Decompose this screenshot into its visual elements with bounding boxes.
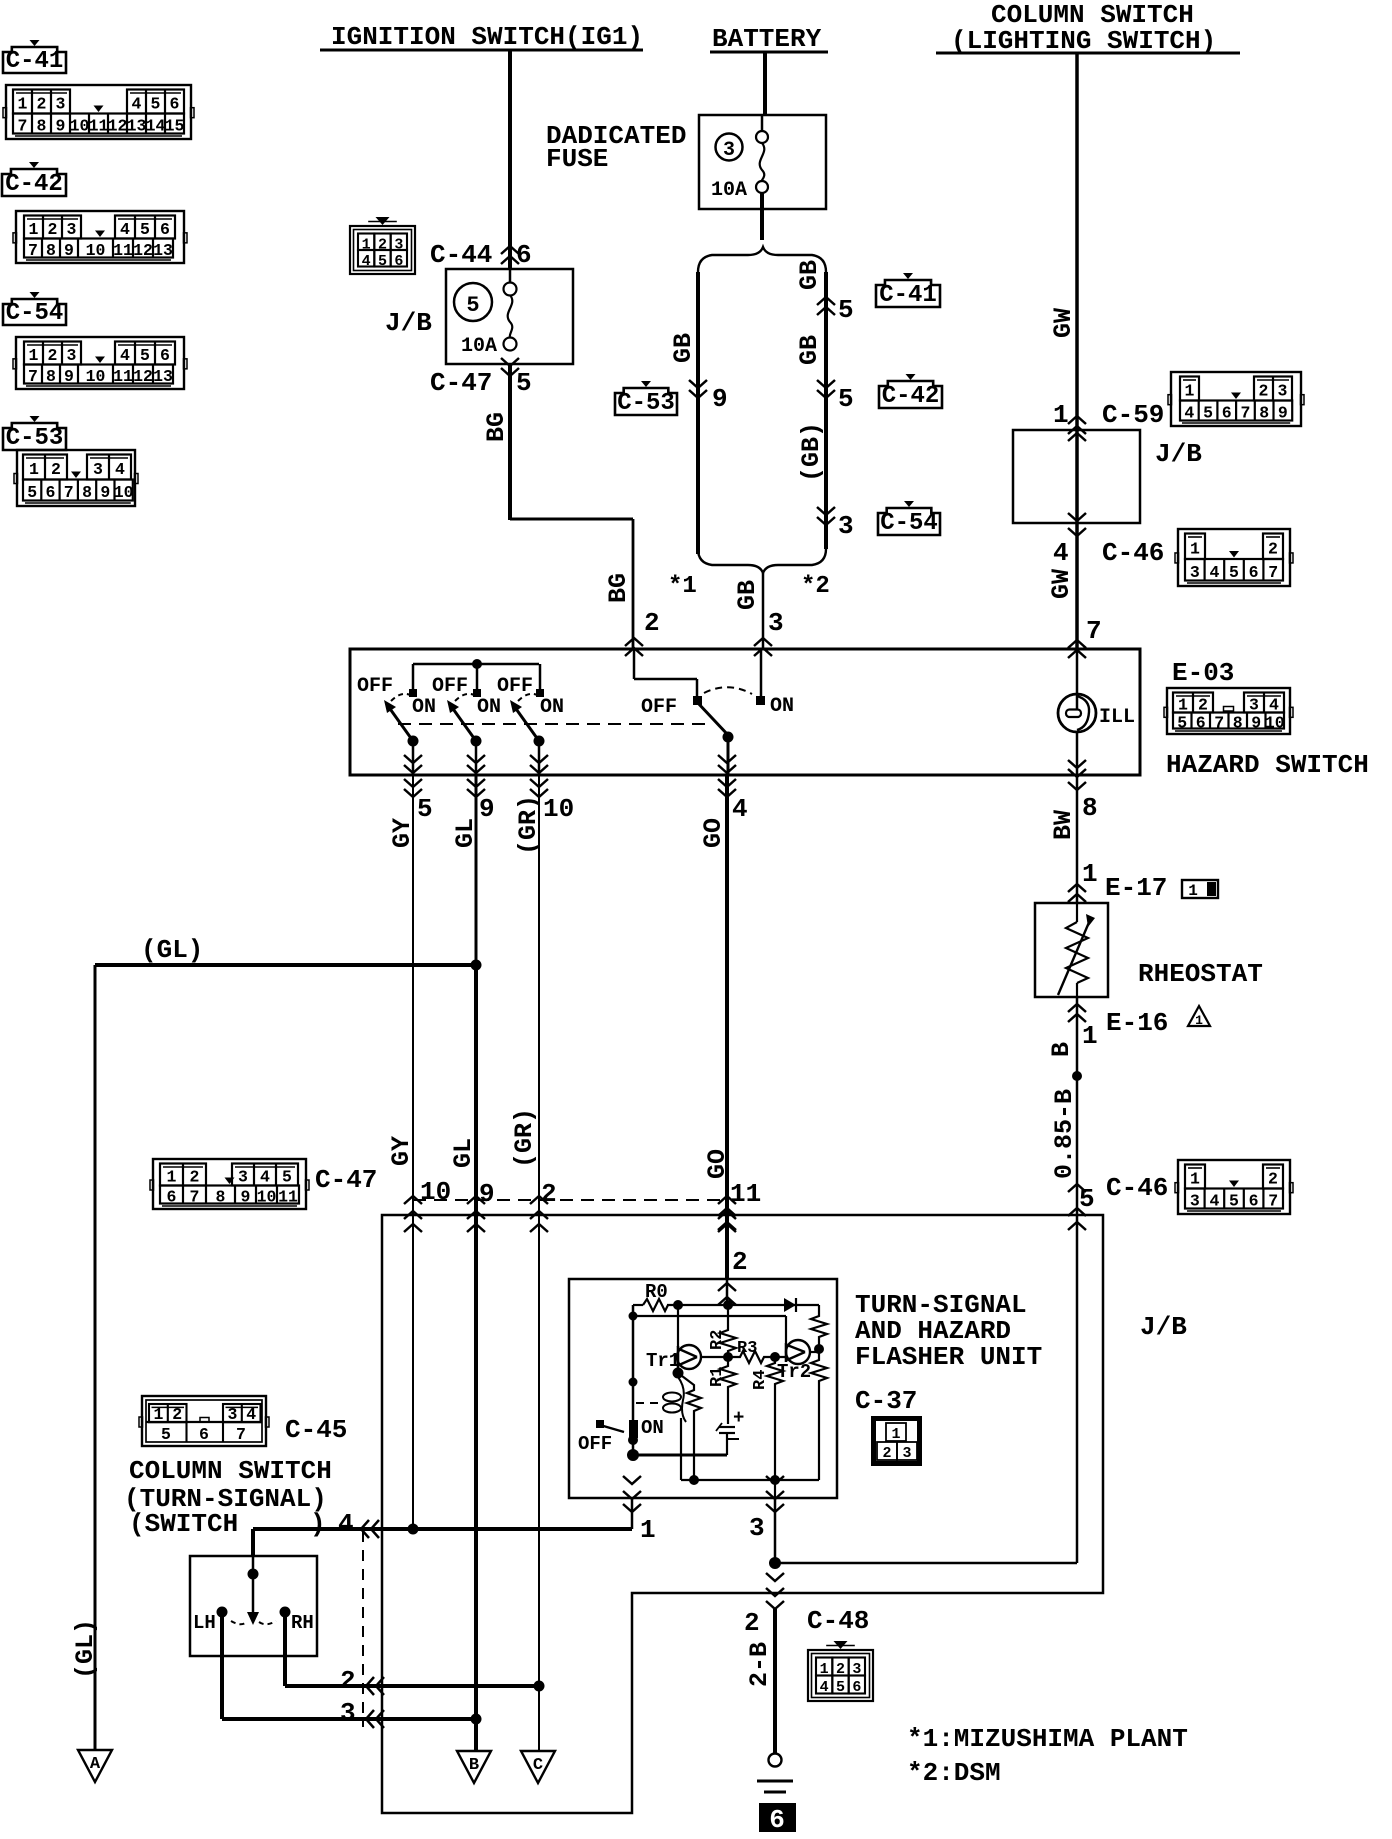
svg-text:LH: LH bbox=[193, 1612, 216, 1634]
svg-text:8: 8 bbox=[1082, 793, 1098, 823]
svg-text:3: 3 bbox=[238, 1168, 248, 1187]
svg-text:10: 10 bbox=[114, 483, 134, 502]
svg-text:Tr2: Tr2 bbox=[777, 1361, 811, 1383]
svg-text:6: 6 bbox=[170, 95, 180, 114]
svg-text:9: 9 bbox=[56, 117, 66, 136]
svg-text:4: 4 bbox=[120, 220, 130, 239]
svg-text:GW: GW bbox=[1049, 308, 1078, 338]
svg-text:HAZARD SWITCH: HAZARD SWITCH bbox=[1166, 750, 1369, 780]
svg-text:5: 5 bbox=[282, 1168, 292, 1187]
svg-text:6: 6 bbox=[516, 240, 532, 270]
svg-text:6: 6 bbox=[394, 253, 403, 270]
svg-text:8: 8 bbox=[216, 1188, 226, 1207]
svg-text:3: 3 bbox=[768, 608, 784, 638]
svg-text:1: 1 bbox=[640, 1515, 656, 1545]
svg-text:9: 9 bbox=[479, 794, 495, 824]
svg-text:3: 3 bbox=[1190, 563, 1200, 582]
svg-text:1: 1 bbox=[1190, 539, 1200, 558]
svg-text:C-54: C-54 bbox=[6, 300, 64, 327]
svg-text:7: 7 bbox=[1086, 616, 1102, 646]
svg-text:GO: GO bbox=[699, 818, 728, 848]
svg-text:9: 9 bbox=[64, 367, 74, 386]
svg-text:10A: 10A bbox=[711, 179, 747, 202]
svg-text:1: 1 bbox=[29, 220, 39, 239]
svg-text:13: 13 bbox=[153, 367, 173, 386]
svg-text:+: + bbox=[733, 1407, 744, 1429]
svg-text:5: 5 bbox=[1177, 714, 1187, 733]
svg-text:7: 7 bbox=[1240, 404, 1250, 423]
svg-text:C-47: C-47 bbox=[430, 368, 492, 398]
svg-text:GB: GB bbox=[795, 260, 824, 290]
svg-text:R4: R4 bbox=[751, 1370, 770, 1390]
svg-text:1: 1 bbox=[18, 95, 28, 114]
svg-text:5: 5 bbox=[838, 384, 854, 414]
svg-text:0.85-B: 0.85-B bbox=[1050, 1089, 1079, 1179]
svg-text:1: 1 bbox=[1053, 400, 1069, 430]
svg-text:9: 9 bbox=[241, 1188, 251, 1207]
svg-text:GL: GL bbox=[449, 1138, 478, 1168]
svg-text:B: B bbox=[469, 1756, 479, 1775]
svg-text:4: 4 bbox=[1053, 538, 1069, 568]
svg-text:ON: ON bbox=[412, 696, 436, 719]
svg-text:7: 7 bbox=[18, 117, 28, 136]
svg-text:2: 2 bbox=[1259, 382, 1269, 401]
svg-text:2: 2 bbox=[172, 1405, 182, 1424]
svg-text:ON: ON bbox=[477, 696, 501, 719]
svg-text:1: 1 bbox=[1190, 1170, 1200, 1189]
svg-text:6: 6 bbox=[1222, 404, 1232, 423]
svg-text:2: 2 bbox=[37, 95, 47, 114]
svg-text:E-16: E-16 bbox=[1106, 1008, 1168, 1038]
svg-text:C-44: C-44 bbox=[430, 240, 492, 270]
svg-text:OFF: OFF bbox=[578, 1433, 612, 1455]
svg-text:1: 1 bbox=[29, 346, 39, 365]
svg-text:12: 12 bbox=[133, 367, 153, 386]
svg-text:GO: GO bbox=[703, 1149, 732, 1179]
svg-text:2-B: 2-B bbox=[745, 1642, 774, 1687]
svg-text:4: 4 bbox=[246, 1405, 256, 1424]
svg-text:GB: GB bbox=[669, 333, 698, 363]
svg-text:ON: ON bbox=[540, 696, 564, 719]
svg-text:9: 9 bbox=[64, 241, 74, 260]
svg-text:BATTERY: BATTERY bbox=[712, 24, 822, 54]
svg-text:ILL: ILL bbox=[1099, 706, 1135, 729]
svg-text:14: 14 bbox=[146, 117, 166, 136]
svg-text:2: 2 bbox=[1268, 1170, 1278, 1189]
svg-text:4: 4 bbox=[1209, 1192, 1219, 1211]
svg-text:GY: GY bbox=[387, 1136, 416, 1166]
svg-text:GB: GB bbox=[733, 580, 762, 610]
svg-text:7: 7 bbox=[1268, 563, 1278, 582]
svg-text:4: 4 bbox=[120, 346, 130, 365]
svg-text:BG: BG bbox=[604, 573, 633, 603]
svg-text:1: 1 bbox=[1195, 1013, 1203, 1028]
svg-text:11: 11 bbox=[113, 241, 133, 260]
svg-text:(GL): (GL) bbox=[141, 935, 203, 965]
svg-text:5: 5 bbox=[378, 253, 387, 270]
svg-text:C-41: C-41 bbox=[879, 282, 937, 309]
svg-text:5: 5 bbox=[140, 346, 150, 365]
svg-text:7: 7 bbox=[28, 367, 38, 386]
svg-text:C-46: C-46 bbox=[1106, 1173, 1168, 1203]
svg-text:7: 7 bbox=[28, 241, 38, 260]
svg-text:11: 11 bbox=[113, 367, 133, 386]
svg-text:1: 1 bbox=[1082, 1021, 1098, 1051]
svg-text:6: 6 bbox=[45, 483, 55, 502]
svg-text:4: 4 bbox=[820, 1679, 829, 1696]
svg-text:8: 8 bbox=[82, 483, 92, 502]
svg-text:4: 4 bbox=[115, 460, 125, 479]
svg-text:3: 3 bbox=[67, 346, 77, 365]
svg-text:3: 3 bbox=[227, 1405, 237, 1424]
svg-text:*1: *1 bbox=[668, 573, 697, 600]
svg-text:C-53: C-53 bbox=[617, 390, 675, 417]
svg-text:E-03: E-03 bbox=[1172, 658, 1234, 688]
svg-text:11: 11 bbox=[89, 117, 109, 136]
svg-text:A: A bbox=[90, 1755, 101, 1774]
svg-text:6: 6 bbox=[199, 1425, 209, 1444]
svg-text:2: 2 bbox=[51, 460, 61, 479]
svg-text:15: 15 bbox=[165, 117, 185, 136]
svg-text:RH: RH bbox=[291, 1612, 314, 1634]
svg-text:5: 5 bbox=[27, 483, 37, 502]
svg-text:C-53: C-53 bbox=[6, 425, 64, 452]
svg-text:2: 2 bbox=[744, 1608, 760, 1638]
svg-text:C-59: C-59 bbox=[1102, 400, 1164, 430]
svg-text:7: 7 bbox=[1214, 714, 1224, 733]
svg-text:C-42: C-42 bbox=[882, 383, 940, 410]
svg-text:10: 10 bbox=[257, 1188, 277, 1207]
svg-text:2: 2 bbox=[48, 346, 58, 365]
svg-text:9: 9 bbox=[1278, 404, 1288, 423]
svg-text:7: 7 bbox=[64, 483, 74, 502]
svg-text:7: 7 bbox=[1268, 1192, 1278, 1211]
svg-text:(GL): (GL) bbox=[71, 1619, 100, 1679]
svg-text:5: 5 bbox=[466, 293, 479, 318]
svg-text:10: 10 bbox=[70, 117, 90, 136]
svg-text:FLASHER UNIT: FLASHER UNIT bbox=[855, 1342, 1042, 1372]
svg-text:ON: ON bbox=[770, 695, 794, 718]
svg-text:8: 8 bbox=[37, 117, 47, 136]
svg-text:10: 10 bbox=[1265, 714, 1285, 733]
svg-text:3: 3 bbox=[723, 139, 735, 162]
svg-text:7: 7 bbox=[236, 1425, 246, 1444]
svg-text:2: 2 bbox=[340, 1666, 356, 1696]
svg-text:8: 8 bbox=[46, 241, 56, 260]
svg-text:C-42: C-42 bbox=[5, 171, 63, 198]
svg-text:1: 1 bbox=[1185, 382, 1195, 401]
svg-text:3: 3 bbox=[902, 1445, 911, 1462]
svg-text:5: 5 bbox=[1229, 563, 1239, 582]
svg-text:9: 9 bbox=[1251, 714, 1261, 733]
svg-text:(SWITCH: (SWITCH bbox=[129, 1509, 238, 1539]
svg-text:(GR): (GR) bbox=[510, 1108, 539, 1168]
svg-text:5: 5 bbox=[417, 794, 433, 824]
svg-text:4: 4 bbox=[338, 1509, 354, 1539]
svg-text:C-47: C-47 bbox=[315, 1165, 377, 1195]
svg-text:5: 5 bbox=[140, 220, 150, 239]
svg-text:1: 1 bbox=[891, 1426, 900, 1443]
svg-text:3: 3 bbox=[1190, 1192, 1200, 1211]
svg-text:J/B: J/B bbox=[385, 308, 432, 338]
svg-text:10: 10 bbox=[86, 241, 106, 260]
svg-text:5: 5 bbox=[1229, 1192, 1239, 1211]
svg-text:C-45: C-45 bbox=[285, 1415, 347, 1445]
svg-text:C-48: C-48 bbox=[807, 1606, 869, 1636]
svg-text:COLUMN SWITCH: COLUMN SWITCH bbox=[129, 1456, 332, 1486]
svg-text:2: 2 bbox=[190, 1168, 200, 1187]
svg-text:OFF: OFF bbox=[497, 675, 533, 698]
svg-text:13: 13 bbox=[127, 117, 147, 136]
svg-text:C-41: C-41 bbox=[6, 48, 64, 75]
svg-text:BG: BG bbox=[482, 412, 511, 442]
svg-text:J/B: J/B bbox=[1155, 439, 1202, 469]
svg-text:9: 9 bbox=[712, 384, 728, 414]
svg-text:6: 6 bbox=[852, 1679, 861, 1696]
svg-text:BW: BW bbox=[1049, 810, 1078, 840]
svg-text:RHEOSTAT: RHEOSTAT bbox=[1138, 959, 1263, 989]
svg-text:4: 4 bbox=[1184, 404, 1194, 423]
svg-text:4: 4 bbox=[260, 1168, 270, 1187]
svg-text:5: 5 bbox=[1203, 404, 1213, 423]
svg-text:OFF: OFF bbox=[357, 675, 393, 698]
svg-text:*2:DSM: *2:DSM bbox=[907, 1758, 1001, 1788]
svg-text:3: 3 bbox=[838, 511, 854, 541]
svg-text:5: 5 bbox=[838, 295, 854, 325]
svg-text:1: 1 bbox=[1188, 882, 1198, 900]
svg-text:6: 6 bbox=[769, 1805, 785, 1834]
svg-text:2: 2 bbox=[732, 1247, 748, 1277]
svg-text:7: 7 bbox=[190, 1188, 200, 1207]
svg-text:5: 5 bbox=[836, 1679, 845, 1696]
svg-text:*2: *2 bbox=[801, 573, 830, 600]
svg-text:4: 4 bbox=[732, 794, 748, 824]
svg-text:GB: GB bbox=[795, 335, 824, 365]
svg-text:12: 12 bbox=[133, 241, 153, 260]
svg-text:3: 3 bbox=[67, 220, 77, 239]
svg-text:12: 12 bbox=[108, 117, 128, 136]
svg-text:6: 6 bbox=[160, 220, 170, 239]
svg-text:C-37: C-37 bbox=[855, 1386, 917, 1416]
svg-text:B: B bbox=[1047, 1042, 1076, 1057]
svg-text:4: 4 bbox=[132, 95, 142, 114]
svg-text:10: 10 bbox=[420, 1177, 451, 1207]
svg-text:2: 2 bbox=[1268, 539, 1278, 558]
svg-text:2: 2 bbox=[644, 608, 660, 638]
svg-text:10: 10 bbox=[86, 367, 106, 386]
svg-text:4: 4 bbox=[1209, 563, 1219, 582]
svg-text:13: 13 bbox=[153, 241, 173, 260]
svg-text:3: 3 bbox=[749, 1513, 765, 1543]
svg-text:4: 4 bbox=[362, 253, 371, 270]
svg-text:OFF: OFF bbox=[432, 675, 468, 698]
svg-text:10A: 10A bbox=[461, 335, 497, 358]
svg-text:11: 11 bbox=[278, 1188, 298, 1207]
svg-text:6: 6 bbox=[1249, 563, 1259, 582]
svg-text:FUSE: FUSE bbox=[546, 144, 608, 174]
svg-text:OFF: OFF bbox=[641, 696, 677, 719]
svg-text:(GB): (GB) bbox=[797, 422, 826, 482]
svg-text:R2: R2 bbox=[708, 1330, 727, 1350]
svg-text:8: 8 bbox=[1259, 404, 1269, 423]
svg-text:8: 8 bbox=[1233, 714, 1243, 733]
svg-text:3: 3 bbox=[1278, 382, 1288, 401]
svg-text:2: 2 bbox=[48, 220, 58, 239]
svg-text:3: 3 bbox=[56, 95, 66, 114]
svg-text:3: 3 bbox=[340, 1698, 356, 1728]
svg-text:): ) bbox=[310, 1509, 326, 1539]
svg-text:3: 3 bbox=[93, 460, 103, 479]
svg-text:6: 6 bbox=[160, 346, 170, 365]
svg-text:5: 5 bbox=[161, 1425, 171, 1444]
svg-text:2: 2 bbox=[541, 1179, 557, 1209]
svg-text:5: 5 bbox=[151, 95, 161, 114]
svg-text:1: 1 bbox=[167, 1168, 177, 1187]
svg-text:6: 6 bbox=[167, 1188, 177, 1207]
svg-text:9: 9 bbox=[479, 1179, 495, 1209]
svg-text:GW: GW bbox=[1047, 569, 1076, 599]
svg-text:C-54: C-54 bbox=[880, 510, 938, 537]
svg-text:5: 5 bbox=[516, 368, 532, 398]
svg-text:1: 1 bbox=[1082, 859, 1098, 889]
svg-text:2: 2 bbox=[882, 1445, 891, 1462]
svg-text:10: 10 bbox=[543, 794, 574, 824]
svg-text:*1:MIZUSHIMA PLANT: *1:MIZUSHIMA PLANT bbox=[907, 1724, 1188, 1754]
svg-text:9: 9 bbox=[100, 483, 110, 502]
svg-text:C: C bbox=[533, 1756, 543, 1775]
svg-text:6: 6 bbox=[1196, 714, 1206, 733]
svg-text:E-17: E-17 bbox=[1105, 873, 1167, 903]
svg-text:6: 6 bbox=[1249, 1192, 1259, 1211]
svg-text:ON: ON bbox=[641, 1417, 664, 1439]
svg-text:C-46: C-46 bbox=[1102, 538, 1164, 568]
svg-text:1: 1 bbox=[29, 460, 39, 479]
svg-text:1: 1 bbox=[153, 1405, 163, 1424]
svg-text:IGNITION SWITCH(IG1): IGNITION SWITCH(IG1) bbox=[331, 22, 643, 52]
svg-text:8: 8 bbox=[46, 367, 56, 386]
svg-text:J/B: J/B bbox=[1140, 1312, 1187, 1342]
